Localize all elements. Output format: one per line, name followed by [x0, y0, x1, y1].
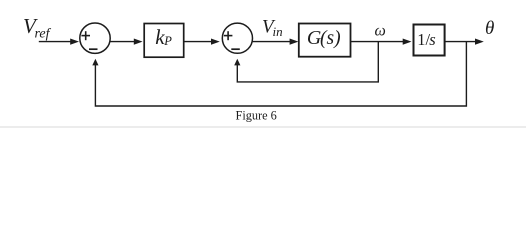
wire outer feedback theta to S1	[92, 42, 466, 106]
wire kP to summing junction S2	[184, 39, 220, 45]
block 1/s	[414, 25, 445, 56]
svg-text:θ: θ	[485, 18, 494, 39]
block G(s)	[299, 24, 351, 57]
node Vref label	[23, 14, 52, 42]
wire S1 to block kP	[110, 39, 142, 45]
svg-text:P: P	[163, 34, 172, 48]
svg-text:ref: ref	[35, 27, 52, 42]
wire G to block 1/s	[351, 39, 412, 45]
svg-text:s: s	[429, 30, 435, 49]
summing junction S1	[80, 23, 110, 53]
wire inner feedback omega to S2	[234, 42, 378, 82]
bottom rule	[0, 126, 526, 128]
svg-text:(s): (s)	[320, 28, 341, 49]
summing junction S2	[222, 23, 252, 53]
block kP	[144, 24, 184, 58]
node Vin label	[262, 17, 283, 40]
svg-text:ω: ω	[375, 23, 386, 40]
wire 1/s to output theta	[445, 39, 484, 45]
wire input Vref to summing junction S1	[39, 39, 79, 45]
wire S2 to block G	[253, 39, 299, 45]
svg-text:Figure 6: Figure 6	[236, 108, 277, 122]
svg-text:in: in	[273, 24, 283, 39]
